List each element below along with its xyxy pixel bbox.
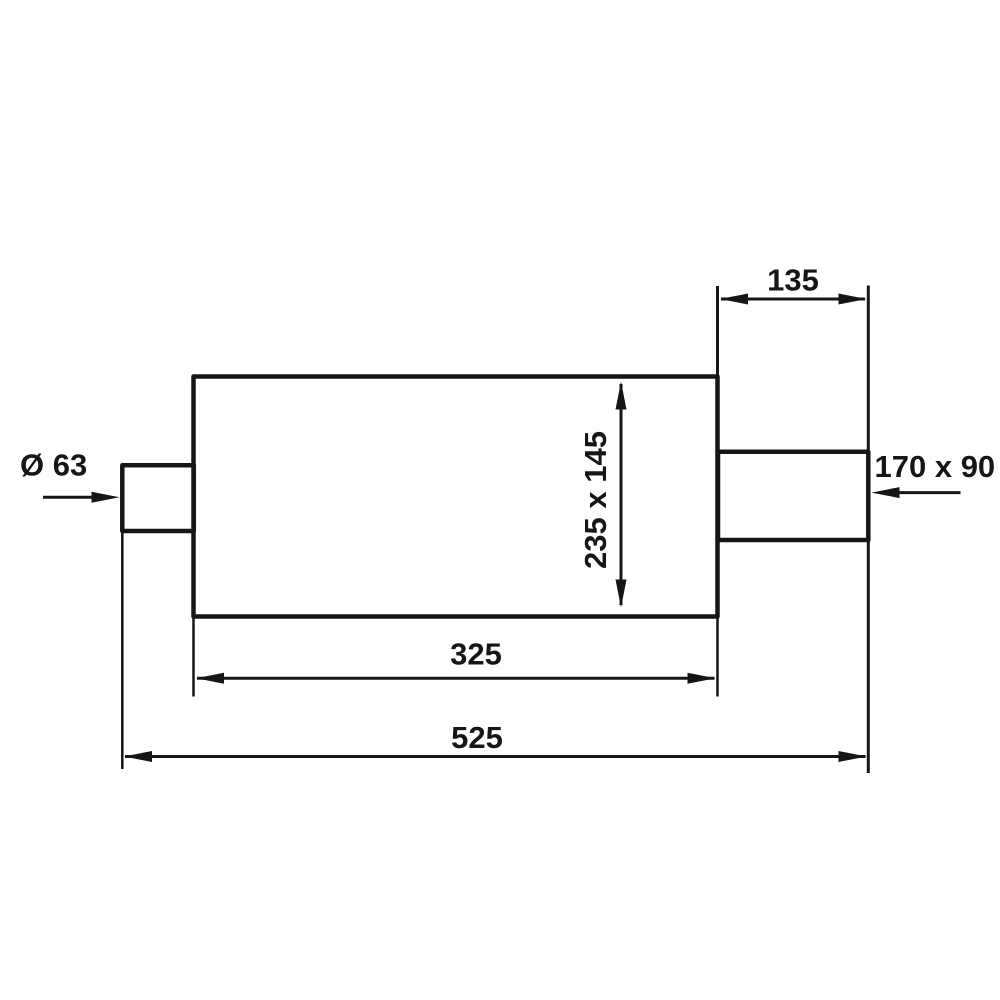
svg-text:235 x 145: 235 x 145 bbox=[578, 431, 613, 569]
extension line 135 right (above outlet box) bbox=[867, 286, 870, 452]
muffler body rectangle bbox=[194, 377, 718, 617]
arrowhead 525 left bbox=[124, 751, 152, 762]
extension line right 525 bbox=[867, 541, 870, 773]
leader arrow outlet bbox=[899, 491, 961, 494]
extension line 135 left (above body right edge) bbox=[716, 286, 719, 376]
extension line left 325 bbox=[192, 618, 195, 697]
inlet pipe rectangle bbox=[122, 465, 194, 531]
leader arrowhead inlet bbox=[92, 492, 120, 503]
leader arrow inlet bbox=[43, 496, 93, 499]
dimension line 325 bbox=[197, 677, 715, 680]
extension line right 325 bbox=[716, 617, 719, 697]
arrowhead 325 left bbox=[196, 673, 224, 684]
arrowhead 235x145 bottom bbox=[616, 580, 627, 608]
arrowhead 325 right bbox=[688, 673, 716, 684]
svg-text:Ø 63: Ø 63 bbox=[20, 448, 87, 483]
svg-text:325: 325 bbox=[450, 637, 502, 672]
dimension line 135 bbox=[721, 298, 865, 301]
arrowhead 235x145 top bbox=[616, 382, 627, 410]
dimension line 235x145 vertical bbox=[620, 384, 623, 605]
leader arrowhead outlet bbox=[872, 487, 900, 498]
extension line left 525 bbox=[121, 533, 124, 769]
arrowhead 135 right bbox=[839, 294, 867, 305]
arrowhead 525 right bbox=[839, 751, 867, 762]
svg-text:135: 135 bbox=[767, 263, 819, 298]
outlet box rectangle bbox=[718, 452, 868, 540]
svg-text:525: 525 bbox=[451, 720, 503, 755]
dimension line 525 bbox=[125, 755, 866, 758]
arrowhead 135 left bbox=[720, 294, 748, 305]
svg-text:170 x 90: 170 x 90 bbox=[875, 449, 996, 484]
